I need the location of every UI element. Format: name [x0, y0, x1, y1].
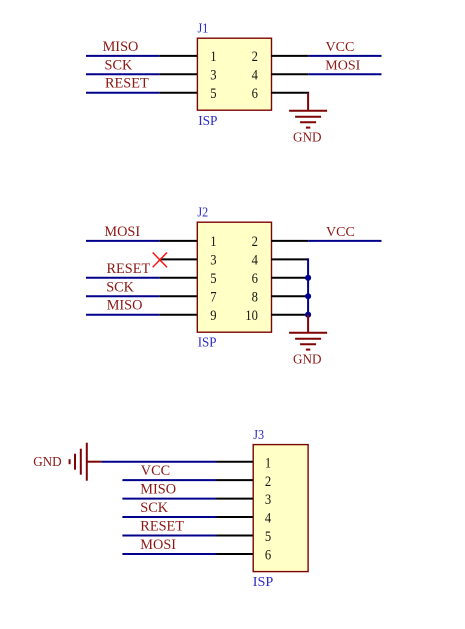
svg-text:VCC: VCC [326, 40, 355, 55]
svg-text:RESET: RESET [140, 519, 184, 535]
svg-text:9: 9 [210, 308, 216, 324]
svg-text:RESET: RESET [107, 261, 151, 277]
svg-text:8: 8 [252, 290, 258, 306]
svg-text:6: 6 [252, 86, 259, 102]
svg-text:J1: J1 [198, 22, 209, 37]
svg-text:SCK: SCK [140, 500, 168, 516]
svg-text:MOSI: MOSI [104, 224, 140, 240]
svg-text:VCC: VCC [141, 463, 170, 479]
svg-text:MISO: MISO [107, 298, 143, 314]
svg-text:SCK: SCK [105, 57, 133, 73]
svg-text:5: 5 [210, 271, 216, 287]
svg-text:2: 2 [252, 234, 258, 250]
svg-text:5: 5 [265, 529, 271, 545]
svg-text:J2: J2 [197, 206, 208, 221]
svg-text:3: 3 [210, 68, 216, 84]
svg-text:2: 2 [252, 49, 258, 65]
svg-text:4: 4 [265, 511, 272, 527]
svg-text:ISP: ISP [198, 336, 217, 351]
svg-text:1: 1 [210, 234, 216, 250]
svg-text:VCC: VCC [326, 225, 355, 240]
svg-text:5: 5 [210, 86, 216, 102]
svg-text:GND: GND [293, 352, 322, 367]
svg-text:3: 3 [210, 253, 216, 269]
svg-text:MOSI: MOSI [325, 58, 360, 73]
svg-text:1: 1 [265, 455, 271, 471]
svg-text:6: 6 [252, 271, 259, 287]
svg-text:2: 2 [265, 474, 271, 490]
svg-text:4: 4 [252, 253, 259, 269]
svg-text:MISO: MISO [103, 39, 139, 55]
svg-text:MISO: MISO [140, 482, 176, 498]
svg-text:RESET: RESET [105, 76, 149, 92]
svg-text:4: 4 [252, 68, 259, 84]
svg-text:ISP: ISP [253, 575, 274, 590]
svg-text:J3: J3 [253, 428, 264, 443]
svg-text:3: 3 [265, 492, 271, 508]
svg-text:MOSI: MOSI [140, 537, 176, 553]
svg-text:10: 10 [245, 308, 258, 324]
svg-text:GND: GND [33, 455, 62, 470]
svg-text:ISP: ISP [198, 114, 218, 129]
svg-text:6: 6 [265, 548, 272, 564]
svg-text:GND: GND [293, 130, 322, 145]
svg-text:SCK: SCK [106, 279, 134, 295]
svg-text:7: 7 [210, 290, 217, 306]
svg-text:1: 1 [210, 49, 216, 65]
